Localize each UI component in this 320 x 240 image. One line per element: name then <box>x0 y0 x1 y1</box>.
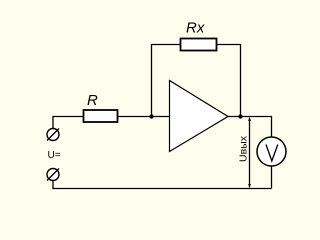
svg-text:U=: U= <box>48 150 61 161</box>
svg-text:Uвых: Uвых <box>237 135 249 162</box>
svg-text:R: R <box>87 92 98 109</box>
svg-text:Rx: Rx <box>186 20 205 37</box>
